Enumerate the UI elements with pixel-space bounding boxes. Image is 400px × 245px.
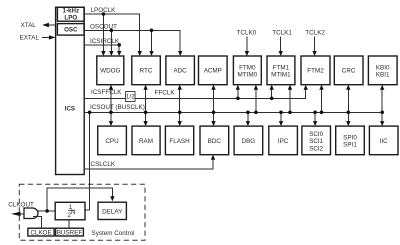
- wire DBG drop: [246, 111, 250, 127]
- pin TCLK2: [305, 29, 325, 56]
- svg-text:TCLK1: TCLK1: [272, 29, 292, 36]
- FLASH block: [165, 126, 193, 155]
- svg-text:System Control: System Control: [92, 230, 135, 237]
- svg-text:ICSFFCLK: ICSFFCLK: [91, 89, 122, 96]
- CLKOE register block: [28, 228, 54, 236]
- wire column1 WDOG-CPU riser: [109, 85, 113, 126]
- wire ICSIRCLK: [84, 43, 121, 56]
- svg-text:KBI0: KBI0: [376, 64, 390, 71]
- CPU block: [98, 126, 127, 155]
- wire ICSOUT BUSCLK bus: [84, 111, 382, 113]
- wire column2 RTC-RAM riser: [143, 85, 147, 126]
- svg-text:TCLK2: TCLK2: [305, 29, 325, 36]
- svg-text:MTIM1: MTIM1: [271, 72, 291, 79]
- pin CLKOUT: [8, 202, 34, 217]
- ICS block U1: [56, 7, 85, 174]
- DBG block: [234, 126, 263, 155]
- wire BUSCLK feed to system control: [85, 111, 91, 211]
- svg-text:SCI0: SCI0: [309, 131, 323, 138]
- pin TCLK1: [272, 29, 292, 56]
- pin XTAL: [21, 22, 56, 29]
- DELAY block: [98, 202, 126, 219]
- svg-text:SPI1: SPI1: [343, 142, 357, 149]
- svg-text:FFCLK: FFCLK: [155, 89, 176, 96]
- FTM0 MTIM0 block: [233, 56, 261, 85]
- svg-text:BUSREF: BUSREF: [57, 229, 83, 236]
- svg-text:IPC: IPC: [278, 138, 289, 145]
- IIC block: [369, 126, 398, 155]
- RTC block: [132, 56, 161, 85]
- svg-text:RTC: RTC: [140, 68, 153, 75]
- svg-text:LPOCLK: LPOCLK: [91, 7, 117, 14]
- svg-text:ACMP: ACMP: [204, 68, 222, 75]
- wire ICSLCLK to BDC: [84, 155, 215, 169]
- output gate G1: [24, 208, 38, 219]
- divider 1/2 block: [126, 92, 136, 102]
- wire gate enable from CLKOE: [33, 217, 42, 229]
- wire column4 ACMP-BDC riser: [211, 85, 215, 126]
- svg-text:SCI2: SCI2: [309, 145, 323, 152]
- wire column9 KBI-IIC riser: [380, 85, 384, 126]
- svg-text:DBG: DBG: [242, 138, 256, 145]
- svg-text:1/2: 1/2: [126, 94, 135, 101]
- wire BUSREF to divider: [68, 220, 70, 228]
- WDOG block: [97, 56, 124, 85]
- svg-text:EXTAL: EXTAL: [20, 35, 40, 42]
- wire FFCLK bus: [135, 85, 308, 100]
- svg-text:FLASH: FLASH: [169, 138, 190, 145]
- svg-text:CLKOE: CLKOE: [30, 229, 51, 236]
- FTM2 block: [301, 56, 330, 85]
- wire column3 ADC-FLASH riser: [178, 85, 182, 126]
- OSC block: [57, 24, 84, 35]
- BUSREF register block: [56, 228, 84, 236]
- svg-text:BDC: BDC: [208, 138, 222, 145]
- svg-text:ICSIRCLK: ICSIRCLK: [90, 38, 120, 45]
- wire system control distribution: [33, 188, 115, 213]
- svg-text:KBI1: KBI1: [376, 72, 390, 79]
- wire FTM0 busclk riser: [254, 85, 258, 114]
- wire ICSFFCLK stub: [84, 97, 125, 99]
- svg-text:OSC: OSC: [64, 27, 78, 34]
- svg-text:ICSOUT (BUSCLK): ICSOUT (BUSCLK): [90, 104, 145, 111]
- divider 1/2^N block: [55, 202, 85, 220]
- svg-text:SPI0: SPI0: [343, 135, 357, 142]
- KBI0 KBI1 block: [368, 56, 397, 85]
- svg-text:FTM2: FTM2: [307, 68, 324, 75]
- wire LPOCLK: [84, 12, 142, 56]
- svg-text:OSCOUT: OSCOUT: [90, 24, 117, 31]
- FTM1 MTIM1 block: [267, 56, 295, 85]
- ACMP block: [199, 56, 228, 85]
- svg-text:CLKOUT: CLKOUT: [8, 202, 34, 209]
- svg-text:FTM0: FTM0: [239, 64, 256, 71]
- svg-text:RAM: RAM: [139, 138, 153, 145]
- CRC block: [334, 56, 363, 85]
- svg-text:IIC: IIC: [380, 138, 388, 145]
- svg-text:WDOG: WDOG: [100, 68, 120, 75]
- RAM block: [132, 126, 160, 155]
- system control dashed border: [19, 184, 145, 240]
- svg-text:MTIM0: MTIM0: [238, 72, 258, 79]
- svg-text:CPU: CPU: [105, 138, 119, 145]
- svg-text:FTM1: FTM1: [273, 64, 290, 71]
- svg-text:LPO: LPO: [64, 15, 77, 22]
- svg-text:ICSLCLK: ICSLCLK: [89, 161, 116, 168]
- wire SCI drop: [313, 111, 317, 127]
- wire IPC drop: [279, 111, 283, 127]
- BDC block: [200, 126, 229, 155]
- wire FTM2 busclk riser: [319, 85, 323, 114]
- svg-text:TCLK0: TCLK0: [237, 29, 257, 36]
- SCI0 SCI1 SCI2 block: [302, 126, 331, 155]
- svg-text:XTAL: XTAL: [21, 22, 37, 29]
- svg-text:N: N: [71, 209, 76, 216]
- IPC block: [269, 126, 298, 155]
- svg-text:ADC: ADC: [173, 68, 187, 75]
- wire OSCOUT: [84, 29, 182, 57]
- 1-kHz LPO block: [57, 7, 84, 21]
- svg-text:CRC: CRC: [342, 68, 356, 75]
- svg-text:ICS: ICS: [65, 106, 75, 113]
- wire FTM1 busclk riser: [288, 85, 292, 114]
- pin TCLK0: [237, 29, 257, 56]
- pin EXTAL: [20, 35, 56, 42]
- SPI0 SPI1 block: [336, 126, 365, 155]
- svg-text:SCI1: SCI1: [309, 138, 323, 145]
- wire column8 CRC-SPI riser: [346, 85, 350, 126]
- ADC block: [166, 56, 195, 85]
- svg-text:DELAY: DELAY: [102, 208, 123, 215]
